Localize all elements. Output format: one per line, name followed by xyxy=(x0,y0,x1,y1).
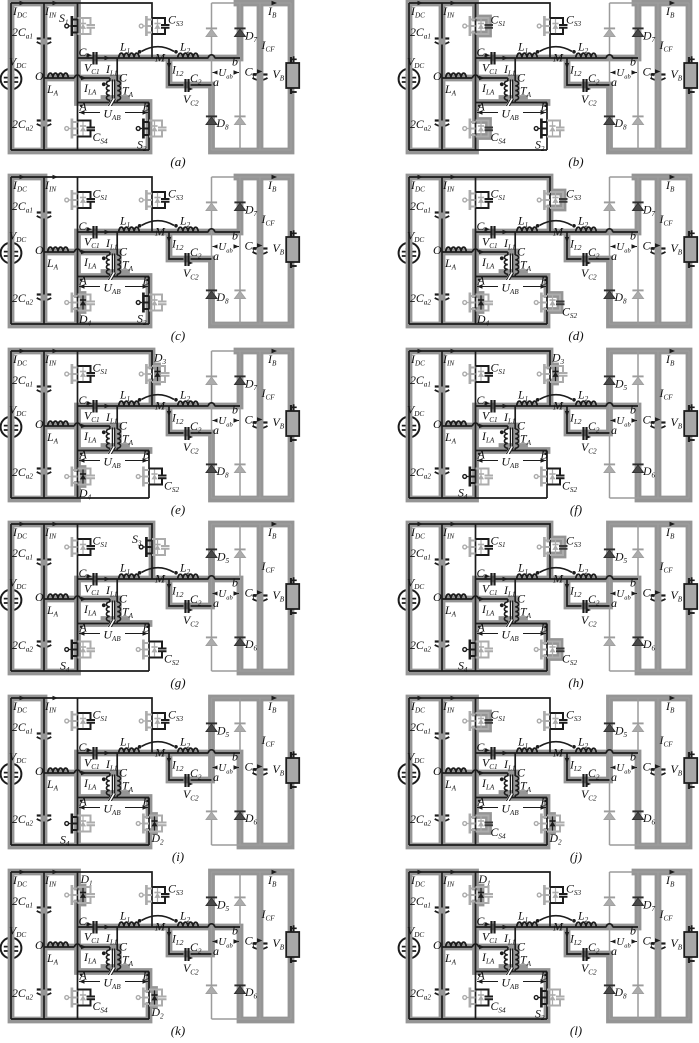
svg-text:C1: C1 xyxy=(477,45,488,61)
svg-text:IL1: IL1 xyxy=(105,410,118,426)
inductor L1 xyxy=(105,909,140,947)
rectifier diode D7 xyxy=(234,28,245,36)
voltage arrow U_ab xyxy=(213,240,240,254)
node a xyxy=(213,423,219,437)
wire: input rails and bridge (black) xyxy=(409,351,638,498)
svg-text:CS3: CS3 xyxy=(566,882,581,898)
svg-text:IL2: IL2 xyxy=(569,63,582,79)
svg-text:2Ca2: 2Ca2 xyxy=(12,812,33,828)
current I_B xyxy=(267,522,277,541)
DC source V_DC label xyxy=(407,924,424,940)
snubber capacitor C_S3 xyxy=(139,13,183,37)
svg-text:D6: D6 xyxy=(244,811,258,827)
filter capacitor C_F plates xyxy=(253,423,268,429)
svg-text:VB: VB xyxy=(273,415,285,431)
svg-text:TA: TA xyxy=(520,84,532,100)
svg-text:VC2: VC2 xyxy=(183,440,199,456)
svg-text:(a): (a) xyxy=(170,154,185,169)
svg-text:VC2: VC2 xyxy=(183,92,199,108)
svg-text:L1: L1 xyxy=(517,214,528,230)
label 2C_a1 xyxy=(12,199,33,215)
label D7 xyxy=(642,898,656,914)
label 2C_a2 xyxy=(410,986,431,1002)
voltage arrow U_AB xyxy=(79,975,148,991)
svg-text:VB: VB xyxy=(273,762,285,778)
loop capacitor C2 xyxy=(167,411,202,456)
node A xyxy=(477,969,486,983)
transformer T_A xyxy=(81,71,134,102)
subcircuit (k) xyxy=(1,870,300,1038)
node b xyxy=(232,403,238,417)
node A xyxy=(79,274,88,288)
label D8 xyxy=(614,116,628,132)
subcircuit (b) xyxy=(399,1,698,169)
loop capacitor C2 xyxy=(565,63,600,108)
svg-text:C: C xyxy=(517,592,526,606)
svg-text:D7: D7 xyxy=(244,203,258,219)
node B xyxy=(143,795,151,809)
label 2C_a1 xyxy=(410,199,431,215)
wire: input rails and bridge (black) xyxy=(409,524,638,671)
svg-text:CS1: CS1 xyxy=(93,187,108,203)
loop capacitor C2 xyxy=(167,758,202,803)
inductor L2 xyxy=(178,214,198,233)
svg-text:2Ca2: 2Ca2 xyxy=(12,638,33,654)
label D7 xyxy=(244,203,258,219)
label D6 xyxy=(244,637,258,653)
filter capacitor C_F plates xyxy=(651,770,666,776)
current I_B xyxy=(665,696,675,715)
node b xyxy=(630,924,636,938)
svg-text:2Ca1: 2Ca1 xyxy=(12,546,33,562)
switch S4 xyxy=(60,640,95,675)
filter capacitor C_F plates xyxy=(651,944,666,950)
svg-text:CS3: CS3 xyxy=(168,187,183,203)
svg-text:(j): (j) xyxy=(570,849,582,864)
inductor L1 xyxy=(105,388,140,426)
current I_IN xyxy=(442,870,456,889)
svg-text:(f): (f) xyxy=(570,502,582,517)
rectifier diode D7 xyxy=(632,897,643,905)
loop capacitor C2 xyxy=(565,237,600,282)
rectifier diode D5 xyxy=(604,549,615,557)
filter capacitor C_F plates xyxy=(253,944,268,950)
svg-text:ILA: ILA xyxy=(83,429,97,445)
current I_B xyxy=(267,696,277,715)
svg-text:O: O xyxy=(35,69,44,83)
filter capacitor C_F labels xyxy=(245,559,276,601)
current I_B xyxy=(267,349,277,368)
current I_B xyxy=(267,870,277,889)
crossing mark below transformer xyxy=(505,99,513,107)
rectifier diode D7 xyxy=(234,897,245,905)
crossing mark below transformer xyxy=(107,794,115,802)
label 2C_a2 xyxy=(410,291,431,307)
node a xyxy=(611,423,617,437)
capacitor C1 xyxy=(477,740,498,771)
snubber capacitor C_S1 xyxy=(463,534,506,558)
svg-text:D6: D6 xyxy=(642,811,656,827)
svg-text:L2: L2 xyxy=(179,735,191,751)
current I_B xyxy=(665,1,675,20)
crossing mark below transformer xyxy=(505,620,513,628)
current I_B xyxy=(665,870,675,889)
svg-text:L2: L2 xyxy=(577,40,589,56)
coupling arc M between L1 and L2 xyxy=(536,395,576,413)
label D7 xyxy=(244,377,258,393)
node A xyxy=(79,795,88,809)
label 2C_a2 xyxy=(12,465,33,481)
inductor L1 xyxy=(503,561,538,599)
thick gray conduction path, state (f) xyxy=(409,351,689,499)
inductor L_A and node O xyxy=(433,417,466,446)
label 2C_a2 xyxy=(410,638,431,654)
label D8 xyxy=(216,116,230,132)
capacitor C1 xyxy=(477,914,498,945)
DC source V_DC symbol xyxy=(1,69,22,90)
label D5 xyxy=(614,550,628,566)
node B xyxy=(541,969,549,983)
snubber capacitor C_S2 xyxy=(534,640,577,668)
svg-text:2Ca1: 2Ca1 xyxy=(12,894,33,910)
transformer T_A xyxy=(81,766,134,797)
node b xyxy=(630,229,636,243)
svg-text:O: O xyxy=(35,590,44,604)
svg-text:VDC: VDC xyxy=(9,229,26,245)
thick gray conduction path, state (d) xyxy=(409,177,689,325)
thick gray conduction path, state (a) xyxy=(11,3,291,151)
svg-text:IL1: IL1 xyxy=(503,931,516,947)
capacitor 2C_a1 plates xyxy=(37,734,52,740)
svg-text:D5: D5 xyxy=(216,898,230,914)
node B xyxy=(541,274,549,288)
snubber capacitor C_S2 xyxy=(534,293,577,321)
svg-text:L1: L1 xyxy=(119,40,130,56)
svg-text:C1: C1 xyxy=(79,393,90,409)
snubber capacitor C_S3 xyxy=(139,708,183,732)
rectifier diode D8 xyxy=(604,464,615,472)
capacitor 2C_a1 plates xyxy=(435,560,450,566)
inductor L_A and node O xyxy=(433,243,466,272)
svg-text:S2: S2 xyxy=(535,138,545,154)
svg-text:CS1: CS1 xyxy=(491,708,506,724)
svg-text:IL2: IL2 xyxy=(569,932,582,948)
rectifier diode D8 xyxy=(206,464,217,472)
svg-text:C1: C1 xyxy=(477,914,488,930)
svg-text:M: M xyxy=(154,399,166,413)
label 2C_a1 xyxy=(410,720,431,736)
svg-text:LA: LA xyxy=(444,430,457,446)
svg-text:CS4: CS4 xyxy=(93,999,108,1015)
current I_B xyxy=(267,1,277,20)
node b xyxy=(630,55,636,69)
svg-text:D6: D6 xyxy=(244,985,258,1001)
current I_DC xyxy=(12,696,27,715)
svg-text:(d): (d) xyxy=(568,328,583,343)
svg-text:2Ca2: 2Ca2 xyxy=(410,291,431,307)
battery V_B xyxy=(273,577,300,615)
svg-text:M: M xyxy=(154,225,166,239)
svg-text:VDC: VDC xyxy=(9,924,26,940)
svg-text:L2: L2 xyxy=(577,561,589,577)
subcircuit (h) xyxy=(399,522,698,690)
DC source V_DC symbol xyxy=(399,764,420,785)
svg-text:O: O xyxy=(433,243,442,257)
label 2C_a2 xyxy=(410,812,431,828)
snubber capacitor C_S1 xyxy=(65,187,108,211)
current I_DC xyxy=(12,870,27,889)
wire: input rails and bridge (black) xyxy=(11,177,240,324)
voltage arrow U_ab xyxy=(611,240,638,254)
inductor L1 xyxy=(503,214,538,252)
node b xyxy=(630,576,636,590)
svg-text:TA: TA xyxy=(122,258,134,274)
capacitor 2C_a1 plates xyxy=(37,908,52,914)
svg-text:ICF: ICF xyxy=(261,733,276,749)
rectifier diode D7 xyxy=(234,202,245,210)
svg-text:LA: LA xyxy=(444,951,457,967)
DC source V_DC symbol xyxy=(399,938,420,959)
inductor L_A and node O xyxy=(433,69,466,98)
loop capacitor C2 xyxy=(565,932,600,977)
wire: input rails and bridge (black) xyxy=(11,524,240,671)
svg-text:(c): (c) xyxy=(171,328,185,343)
loop capacitor C2 xyxy=(565,411,600,456)
label D5 xyxy=(216,724,230,740)
svg-text:L1: L1 xyxy=(517,388,528,404)
rectifier diode D8 xyxy=(206,116,217,124)
switch S2 xyxy=(136,293,166,328)
voltage arrow U_ab xyxy=(611,935,638,949)
node a xyxy=(213,249,219,263)
DC source V_DC symbol xyxy=(399,69,420,90)
DC source V_DC symbol xyxy=(1,417,22,438)
svg-text:2Ca1: 2Ca1 xyxy=(410,546,431,562)
voltage arrow U_AB xyxy=(79,280,148,296)
filter capacitor C_F labels xyxy=(643,38,674,80)
svg-text:C1: C1 xyxy=(477,740,488,756)
svg-text:ILA: ILA xyxy=(481,81,495,97)
current I_DC xyxy=(12,1,27,20)
svg-text:LA: LA xyxy=(46,951,59,967)
svg-text:C2: C2 xyxy=(190,940,202,956)
svg-text:CS1: CS1 xyxy=(491,13,506,29)
inductor L2 xyxy=(576,388,596,407)
svg-text:O: O xyxy=(433,764,442,778)
svg-text:TA: TA xyxy=(122,779,134,795)
svg-text:S2: S2 xyxy=(137,138,147,154)
svg-text:ICF: ICF xyxy=(261,212,276,228)
battery V_B xyxy=(273,56,300,94)
diode D1 xyxy=(65,872,95,905)
svg-text:C2: C2 xyxy=(588,592,600,608)
svg-text:C1: C1 xyxy=(477,219,488,235)
svg-text:VB: VB xyxy=(671,588,683,604)
svg-text:(b): (b) xyxy=(568,154,583,169)
svg-text:IL1: IL1 xyxy=(105,62,118,78)
crossing mark below transformer xyxy=(505,273,513,281)
svg-text:C2: C2 xyxy=(588,71,600,87)
voltage arrow U_AB xyxy=(477,106,546,122)
svg-text:CS3: CS3 xyxy=(168,708,183,724)
snubber capacitor C_S1 xyxy=(463,708,506,732)
label D8 xyxy=(614,985,628,1001)
filter capacitor C_F plates xyxy=(651,249,666,255)
svg-text:ICF: ICF xyxy=(659,559,674,575)
svg-text:C2: C2 xyxy=(190,766,202,782)
coupling arc M between L1 and L2 xyxy=(138,568,178,586)
crossing mark below transformer xyxy=(107,99,115,107)
snubber capacitor C_S1 xyxy=(463,187,506,211)
svg-text:L1: L1 xyxy=(119,735,130,751)
svg-text:CF: CF xyxy=(643,239,656,255)
svg-text:IL1: IL1 xyxy=(503,410,516,426)
svg-text:ICF: ICF xyxy=(659,38,674,54)
svg-text:CS2: CS2 xyxy=(562,479,577,495)
rectifier diode D5 xyxy=(206,897,217,905)
DC source V_DC symbol xyxy=(399,243,420,264)
filter capacitor C_F labels xyxy=(643,907,674,949)
wire: input rails and bridge (black) xyxy=(11,3,240,150)
svg-text:C: C xyxy=(119,940,128,954)
voltage arrow U_AB xyxy=(79,627,148,643)
thick gray conduction path, state (c) xyxy=(11,177,291,325)
filter capacitor C_F plates xyxy=(253,770,268,776)
svg-text:D2: D2 xyxy=(151,1005,165,1021)
output rectifier grid wires (gray) xyxy=(212,3,292,150)
svg-text:CS1: CS1 xyxy=(491,187,506,203)
subcircuit (e) xyxy=(1,349,300,517)
svg-text:2Ca1: 2Ca1 xyxy=(410,894,431,910)
inductor L_A and node O xyxy=(35,243,68,272)
node B xyxy=(143,969,151,983)
svg-text:2Ca2: 2Ca2 xyxy=(410,117,431,133)
svg-text:VDC: VDC xyxy=(407,229,424,245)
svg-text:CS4: CS4 xyxy=(93,130,108,146)
svg-text:CS1: CS1 xyxy=(93,361,108,377)
svg-text:IL2: IL2 xyxy=(569,411,582,427)
svg-text:LA: LA xyxy=(444,777,457,793)
svg-text:IL1: IL1 xyxy=(503,236,516,252)
battery V_B xyxy=(273,404,300,442)
svg-text:O: O xyxy=(35,417,44,431)
DC source V_DC symbol xyxy=(1,590,22,611)
label 2C_a1 xyxy=(12,894,33,910)
coupling arc M between L1 and L2 xyxy=(536,916,576,934)
filter capacitor C_F labels xyxy=(643,212,674,254)
rectifier diode D7 xyxy=(632,202,643,210)
svg-text:L2: L2 xyxy=(577,909,589,925)
svg-text:2Ca2: 2Ca2 xyxy=(12,291,33,307)
inductor L1 xyxy=(105,561,140,599)
svg-text:2Ca1: 2Ca1 xyxy=(12,25,33,41)
snubber capacitor C_S3 xyxy=(537,13,581,37)
svg-text:2Ca1: 2Ca1 xyxy=(410,720,431,736)
svg-text:VC2: VC2 xyxy=(183,961,199,977)
svg-text:C2: C2 xyxy=(190,245,202,261)
svg-text:IL2: IL2 xyxy=(171,584,184,600)
voltage arrow U_ab xyxy=(213,935,240,949)
capacitor 2C_a1 plates xyxy=(435,908,450,914)
svg-text:C2: C2 xyxy=(190,592,202,608)
loop capacitor C2 xyxy=(565,584,600,629)
label D6 xyxy=(642,637,656,653)
svg-text:IL1: IL1 xyxy=(105,931,118,947)
inductor L2 xyxy=(576,214,596,233)
svg-text:ICF: ICF xyxy=(261,38,276,54)
current I_DC xyxy=(410,522,425,541)
svg-text:D8: D8 xyxy=(614,116,628,132)
inductor L1 xyxy=(503,735,538,773)
svg-text:LA: LA xyxy=(46,256,59,272)
svg-text:VB: VB xyxy=(671,241,683,257)
inductor L_A and node O xyxy=(433,938,466,967)
DC source V_DC label xyxy=(9,750,26,766)
svg-text:D8: D8 xyxy=(216,290,230,306)
label D7 xyxy=(642,203,656,219)
svg-text:M: M xyxy=(552,51,564,65)
label D7 xyxy=(244,29,258,45)
loop capacitor C2 xyxy=(167,932,202,977)
battery V_B xyxy=(273,230,300,268)
current I_B xyxy=(665,175,675,194)
svg-text:D4: D4 xyxy=(78,486,92,502)
svg-text:C1: C1 xyxy=(79,740,90,756)
diode D4 xyxy=(65,467,95,502)
svg-text:L1: L1 xyxy=(119,561,130,577)
inductor L2 xyxy=(178,909,198,928)
filter capacitor C_F plates xyxy=(253,249,268,255)
svg-text:L1: L1 xyxy=(517,40,528,56)
svg-text:VB: VB xyxy=(273,588,285,604)
svg-text:LA: LA xyxy=(46,430,59,446)
node b xyxy=(232,576,238,590)
voltage arrow U_ab xyxy=(611,414,638,428)
current I_DC xyxy=(410,696,425,715)
current I_DC xyxy=(12,522,27,541)
output rectifier grid wires (gray) xyxy=(212,177,292,324)
transformer T_A xyxy=(81,592,134,623)
capacitor 2C_a2 plates xyxy=(37,642,52,648)
label D6 xyxy=(244,811,258,827)
svg-text:D3: D3 xyxy=(153,351,167,367)
svg-text:S2: S2 xyxy=(535,1007,545,1023)
wire: input rails and bridge (black) xyxy=(409,177,638,324)
node a xyxy=(213,596,219,610)
svg-text:CF: CF xyxy=(245,413,258,429)
svg-text:D8: D8 xyxy=(216,464,230,480)
svg-text:M: M xyxy=(552,746,564,760)
node A xyxy=(477,621,486,635)
capacitor 2C_a2 plates xyxy=(37,990,52,996)
svg-text:IL1: IL1 xyxy=(105,583,118,599)
svg-text:M: M xyxy=(552,399,564,413)
capacitor 2C_a2 plates xyxy=(435,121,450,127)
transformer T_A xyxy=(81,245,134,276)
svg-text:CS2: CS2 xyxy=(164,479,179,495)
svg-text:(g): (g) xyxy=(170,675,185,690)
inductor L1 xyxy=(503,388,538,426)
svg-text:VC2: VC2 xyxy=(581,266,597,282)
transformer T_A xyxy=(81,940,134,971)
snubber capacitor C_S2 xyxy=(136,640,179,668)
svg-text:C2: C2 xyxy=(190,71,202,87)
rectifier diode D5 xyxy=(604,376,615,384)
thick gray conduction path, state (i) xyxy=(11,698,291,846)
rectifier diode D6 xyxy=(632,637,643,645)
svg-text:TA: TA xyxy=(520,258,532,274)
svg-text:2Ca1: 2Ca1 xyxy=(12,720,33,736)
